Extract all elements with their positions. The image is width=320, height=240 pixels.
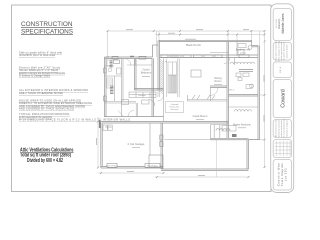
svg-text:AND COVERED BY THICK SIDING AL: AND COVERED BY THICK SIDING ALSO — [19, 107, 74, 111]
svg-text:Divided by 600 = 4.82: Divided by 600 = 4.82 — [27, 158, 63, 164]
svg-text:2 Car Garage: 2 Car Garage — [128, 142, 145, 146]
svg-text:These plans remain prop: These plans remain prop — [275, 41, 278, 62]
svg-text:CONSTRUCTION: CONSTRUCTION — [21, 21, 73, 28]
svg-text:of the designer and may: of the designer and may — [277, 41, 280, 61]
svg-text:ARE 2' SOLID OTHERWISE NOTED: ARE 2' SOLID OTHERWISE NOTED — [19, 91, 63, 95]
svg-text:and any discrepancies: and any discrepancies — [283, 119, 286, 138]
svg-text:Room: Room — [215, 79, 222, 83]
svg-text:W.I.C.: W.I.C. — [229, 90, 235, 92]
svg-text:Bedroom #2: Bedroom #2 — [236, 48, 251, 52]
svg-text:Michelle Jones: Michelle Jones — [281, 13, 285, 33]
svg-text:16x7 OH Door: 16x7 OH Door — [106, 165, 118, 167]
svg-text:Lot 191: Lot 191 — [283, 168, 287, 181]
svg-text:9' Interior & Garage Walls: 9' Interior & Garage Walls — [19, 74, 51, 78]
svg-text:not be reproduced with: not be reproduced with — [280, 42, 283, 61]
svg-text:04-12-2005: 04-12-2005 — [276, 19, 278, 28]
svg-text:monolithic pour to slab area: monolithic pour to slab area — [19, 53, 56, 57]
svg-text:Bedroom: Bedroom — [141, 71, 152, 75]
svg-text:out written permission: out written permission — [283, 42, 286, 60]
svg-text:up: up — [165, 61, 167, 63]
svg-text:All dimensions to be: All dimensions to be — [275, 120, 278, 137]
svg-text:SPECIFICATIONS: SPECIFICATIONS — [21, 28, 73, 35]
svg-text:this area: this area — [171, 108, 180, 111]
svg-text:Coward: Coward — [280, 89, 286, 108]
svg-text:Master Bedroom: Master Bedroom — [233, 124, 251, 127]
svg-text:prior to construction: prior to construction — [280, 120, 283, 137]
svg-text:R-19 DWELLING SPACE FLOOR & R-: R-19 DWELLING SPACE FLOOR & R-13 IN WALL… — [19, 118, 130, 122]
svg-text:of author builder: of author builder — [285, 44, 288, 58]
svg-text:Back Porch: Back Porch — [186, 43, 201, 47]
svg-text:verified by contractor: verified by contractor — [277, 119, 280, 137]
svg-text:Kitchen: Kitchen — [138, 94, 146, 97]
svg-text:1/4"=1': 1/4"=1' — [280, 66, 282, 73]
svg-text:Storage: Storage — [105, 126, 112, 129]
svg-text:Great Room: Great Room — [193, 114, 208, 118]
svg-text:reported to designer: reported to designer — [285, 120, 288, 137]
svg-text:8x7 OH Door: 8x7 OH Door — [147, 165, 158, 167]
